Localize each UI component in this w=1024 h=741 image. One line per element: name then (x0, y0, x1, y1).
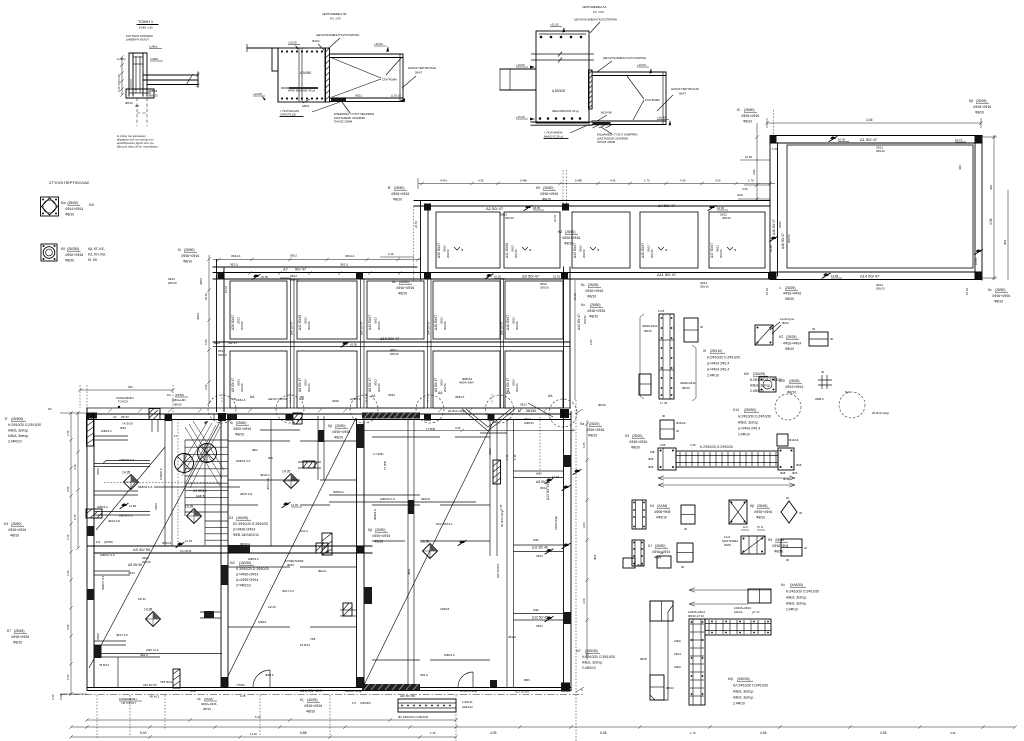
dim vertical left of rows (208, 255, 210, 404)
svg-text:206/10: 206/10 (876, 149, 885, 153)
svg-text:6.88: 6.88 (300, 731, 307, 735)
svg-text:Α/Β/Δ. 3ειπερ.: Α/Β/Δ. 3ειπερ. (582, 661, 603, 665)
svg-text:3Φ12: 3Φ12 (536, 624, 543, 628)
svg-text:Φ8/10: Φ8/10 (203, 707, 211, 711)
svg-text:ΔΟΚΟΣ ΠΕΡΤΙΚΟΛΑΣ: ΔΟΚΟΣ ΠΕΡΤΙΚΟΛΑΣ (671, 87, 699, 91)
detail long beam right block (778, 448, 794, 470)
svg-text:2Φ02: 2Φ02 (332, 399, 339, 403)
detail LB leader V (332, 58, 381, 78)
detail LA right slab (592, 71, 666, 73)
bottom edge wall junction blocks (221, 677, 228, 688)
svg-text:Δ5 50/ 47: Δ5 50/ 47 (231, 378, 235, 392)
lower right rebar strip detail (398, 699, 456, 712)
svg-text:ΦΦ8 Δ: ΦΦ8 Δ (265, 673, 274, 677)
svg-text:+16.45: +16.45 (657, 116, 666, 120)
svg-text:Φ8/Φ: Φ8/Φ (640, 657, 648, 661)
detail K1 dim line (639, 317, 641, 396)
svg-text:1.70: 1.70 (748, 179, 754, 183)
svg-text:46/76 Α.Σ.: 46/76 Α.Σ. (266, 477, 270, 490)
svg-text:206/10: 206/10 (540, 286, 549, 290)
svg-text:Δ2 50/ 47: Δ2 50/ 47 (486, 206, 504, 211)
svg-text:Η.2Φ10/20 Ο.2Φ10/20: Η.2Φ10/20 Ο.2Φ10/20 (8, 423, 41, 427)
detail LB beam section (278, 48, 325, 102)
svg-text:Κβ: Κβ (328, 424, 332, 428)
dimension line left of lower plan (70, 412, 72, 695)
mid room extra lines (228, 504, 258, 506)
svg-text:206/10: 206/10 (582, 249, 586, 258)
svg-text:2.60: 2.60 (582, 598, 586, 604)
svg-text:4Φ16+4Φ14: 4Φ16+4Φ14 (783, 342, 801, 346)
vertical dashed grid above row1 col2 (562, 170, 564, 204)
svg-text:2=4Φ2/10: 2=4Φ2/10 (236, 584, 251, 588)
svg-text:Κ9: Κ9 (768, 538, 772, 542)
svg-text:206/10: 206/10 (377, 383, 381, 392)
detail LA beam section big (536, 31, 589, 123)
dim line right of lower plan (586, 420, 588, 660)
svg-text:Φ8/10: Φ8/10 (306, 710, 315, 714)
svg-text:Κι: Κι (230, 421, 233, 425)
svg-text:Δ39 50/47: Δ39 50/47 (231, 315, 235, 330)
beam B row2 top (213, 272, 420, 274)
svg-text:4Φ08+2Φ14: 4Φ08+2Φ14 (680, 381, 696, 385)
svg-text:4Φ16+4Φ16: 4Φ16+4Φ16 (754, 510, 772, 514)
svg-text:77 Φ/Β: 77 Φ/Β (383, 461, 387, 470)
svg-text:20-Φ10 σιδηρ: 20-Φ10 σιδηρ (460, 689, 478, 693)
column row1 bottom-left (424, 273, 431, 280)
svg-text:4Φ1: 4Φ1 (989, 184, 993, 190)
svg-text:Δ46 50/ 47: Δ46 50/ 47 (500, 321, 504, 335)
svg-text:3x10: 3x10 (737, 193, 744, 197)
svg-text:1.05: 1.05 (240, 694, 246, 698)
svg-text:1.05: 1.05 (582, 442, 586, 448)
svg-text:1Φ.23: 1Φ.23 (138, 597, 146, 601)
svg-text:ΗΦ8/10: ΗΦ8/10 (524, 421, 534, 425)
svg-text:17.48: 17.48 (552, 475, 559, 479)
svg-text:1.45: 1.45 (499, 504, 503, 510)
svg-text:2.16: 2.16 (388, 252, 394, 256)
svg-text:Η.2Φ10/20 Ο.2Φ10/20: Η.2Φ10/20 Ο.2Φ10/20 (738, 415, 771, 419)
stair treads (185, 439, 228, 441)
small marks under row1 slabs (454, 247, 460, 250)
svg-text:ΚΛ.2Φ10/20 Ο.2Φ10/20: ΚΛ.2Φ10/20 Ο.2Φ10/20 (733, 684, 768, 688)
beam D1 50/47 top of big rect (770, 135, 982, 137)
svg-text:Δ=4Φ14 2Φ1.4: Δ=4Φ14 2Φ1.4 (707, 362, 729, 366)
svg-text:5.48: 5.48 (600, 731, 607, 735)
svg-text:206/10: 206/10 (650, 249, 654, 258)
svg-text:Φ08: Φ08 (648, 465, 654, 469)
svg-text:(25/25): (25/25) (588, 283, 598, 287)
svg-text:Δ45 50/47: Δ45 50/47 (434, 315, 438, 330)
beam top of row 1 (414, 200, 770, 202)
svg-text:ΤΟΜΗ 1: ΤΟΜΗ 1 (138, 19, 154, 24)
svg-text:Φ8/10 φΤ 10: Φ8/10 φΤ 10 (688, 614, 704, 618)
svg-text:Δ10 50/ 47: Δ10 50/ 47 (380, 336, 400, 341)
svg-text:ΝΑ2 Α: ΝΑ2 Α (300, 529, 308, 533)
svg-text:(25/20): (25/20) (632, 434, 642, 438)
svg-text:3.00: 3.00 (582, 522, 586, 528)
svg-text:ΔΟΚΟΣ ΠΕΡΤΙΚΟΛΑΣ: ΔΟΚΟΣ ΠΕΡΤΙΚΟΛΑΣ (408, 66, 436, 70)
svg-text:14.80: 14.80 (129, 504, 136, 508)
dimension line bottom secondary (87, 719, 456, 721)
svg-text:11.40: 11.40 (250, 732, 257, 736)
svg-text:Φ8/10: Φ8/10 (374, 540, 383, 544)
svg-text:ΗΦ2: ΗΦ2 (533, 538, 539, 542)
svg-text:Κ4: Κ4 (4, 522, 8, 526)
svg-text:Α/Β/Δ. 3ειπερ.: Α/Β/Δ. 3ειπερ. (8, 434, 29, 438)
svg-text:4.30: 4.30 (950, 731, 956, 735)
second bottom dimension line (71, 736, 456, 738)
svg-text:Φ8/10: Φ8/10 (125, 101, 133, 105)
column right edge bottom (561, 683, 570, 692)
hatched stub bottom x173 (173, 669, 180, 688)
svg-text:50/ 47: 50/ 47 (295, 267, 307, 272)
svg-text:Φ8Φ/4 Α: Φ8Φ/4 Α (373, 509, 377, 520)
detail Kb square X (729, 500, 747, 524)
detail L horizontal bar (705, 619, 771, 635)
svg-text:16.00: 16.00 (838, 138, 845, 142)
svg-text:ΛΕΠΤΟΜΕΡΕΙΑ ΛΑ: ΛΕΠΤΟΜΕΡΕΙΑ ΛΑ (582, 5, 606, 9)
vertical line x118 bottom left (117, 657, 119, 688)
bent bar symbol big rect left (770, 237, 778, 242)
svg-text:Φ08: Φ08 (648, 457, 654, 461)
svg-text:19 Φ/12: 19 Φ/12 (300, 643, 310, 647)
svg-text:25/ 50: 25/ 50 (121, 415, 129, 419)
svg-text:16.95: 16.95 (350, 343, 357, 347)
svg-text:ΦΑΤΑ: ΦΑΤΑ (724, 543, 731, 547)
svg-text:30: 30 (821, 370, 825, 374)
svg-text:206/10: 206/10 (240, 321, 244, 330)
left edge beam rows 2-3 (216, 260, 218, 412)
svg-text:4Φ16+4Φ16: 4Φ16+4Φ16 (391, 192, 409, 196)
svg-text:206/10: 206/10 (218, 353, 227, 357)
svg-text:4.46: 4.46 (866, 118, 873, 122)
wall stub b (200, 611, 221, 613)
detail TOMH 1 footing (126, 88, 154, 90)
interior wall vertical x221 (220, 419, 222, 688)
svg-text:Δ44 50/ 47: Δ44 50/ 47 (577, 314, 581, 330)
svg-text:2.15: 2.15 (73, 514, 77, 520)
svg-text:Φ8: Φ8 (135, 104, 139, 108)
dim vertical right of rows (574, 280, 576, 400)
svg-text:4.05: 4.05 (610, 179, 616, 183)
svg-text:206/10: 206/10 (505, 216, 514, 220)
detail small rect pair mid (660, 420, 674, 439)
svg-text:Δ=4Φ20+3Φ14: Δ=4Φ20+3Φ14 (233, 528, 255, 532)
right rooms extra lines (372, 504, 420, 506)
svg-text:ΣΤΥΛΟΙ ΠΕΡΤΙΚΟΛΑΣ: ΣΤΥΛΟΙ ΠΕΡΤΙΚΟΛΑΣ (49, 180, 90, 185)
slab diamond 3 (146, 612, 161, 627)
svg-text:ΚΖ, ΚΗ, ΚΘ,: ΚΖ, ΚΗ, ΚΘ, (88, 253, 106, 257)
svg-text:Δ8 40/ 50: Δ8 40/ 50 (128, 563, 142, 567)
svg-text:2.4Φ/10: 2.4Φ/10 (733, 702, 745, 706)
svg-text:Δ14 50/ 47: Δ14 50/ 47 (860, 274, 880, 279)
svg-text:Κ7: Κ7 (7, 629, 11, 633)
svg-text:+10.65: +10.65 (288, 41, 297, 45)
svg-text:(25/50): (25/50) (175, 393, 184, 397)
extra dashed verticals bottom (259, 695, 261, 735)
svg-text:30: 30 (676, 429, 680, 433)
slab row2 1 (230, 281, 287, 339)
svg-text:Δ=4Φ20+3Φ14: Δ=4Φ20+3Φ14 (236, 573, 258, 577)
svg-text:4Φ14+4Φ14: 4Φ14+4Φ14 (785, 385, 803, 389)
svg-text:1.16: 1.16 (430, 731, 436, 735)
svg-text:2.4Φ/10: 2.4Φ/10 (786, 608, 798, 612)
detail K20 cross (818, 375, 832, 389)
svg-text:(25/50): (25/50) (104, 540, 113, 544)
svg-text:Δ15 50/ 50: Δ15 50/ 50 (143, 683, 157, 687)
svg-text:Φ8/10: Φ8/10 (65, 213, 74, 217)
svg-text:ΚΖ: ΚΖ (48, 407, 52, 411)
svg-text:Κ20: Κ20 (779, 379, 785, 383)
svg-text:206/10: 206/10 (787, 234, 791, 243)
svg-text:ΗΦ8/4 Α: ΗΦ8/4 Α (248, 557, 259, 561)
svg-text:50/47: 50/47 (679, 92, 686, 96)
svg-text:1.35: 1.35 (513, 454, 517, 460)
slab row1 4 (640, 212, 698, 268)
svg-text:19.32: 19.32 (965, 288, 969, 295)
svg-text:ΗΦ/Ν6 Κ.Σ.: ΗΦ/Ν6 Κ.Σ. (119, 514, 134, 518)
svg-text:Δ39 50/47: Δ39 50/47 (437, 243, 441, 258)
svg-text:Κι7: Κι7 (576, 649, 581, 653)
beam verticals between row slabs (290, 279, 292, 408)
svg-text:3Φ12: 3Φ12 (128, 571, 135, 575)
svg-text:ΗΦ8/4: ΗΦ8/4 (258, 620, 267, 624)
svg-text:Φ05/Μ Α: Φ05/Μ Α (333, 490, 344, 494)
svg-text:4Φ2/10: 4Φ2/10 (656, 516, 667, 520)
bent bar symbol big rect top (829, 137, 837, 142)
svg-text:Φ8/20 Α: Φ8/20 Α (240, 542, 250, 546)
slab row1 2 (504, 212, 560, 268)
svg-text:22.52: 22.52 (414, 221, 418, 228)
svg-text:19.32: 19.32 (224, 286, 228, 293)
svg-text:+10.68: +10.68 (253, 92, 262, 96)
svg-text:Κιβ: Κιβ (728, 677, 733, 681)
svg-text:Φ8/10: Φ8/10 (785, 347, 794, 351)
svg-text:Κιδ: Κιδ (744, 372, 749, 376)
svg-text:Φ04: Φ04 (593, 554, 597, 560)
dim left of big rect vertical (756, 123, 758, 200)
svg-text:3Φ4 Δ: 3Φ4 Δ (420, 673, 428, 677)
svg-text:4.47α: 4.47α (440, 179, 447, 183)
svg-text:4.05: 4.05 (880, 731, 887, 735)
svg-text:6Φ8/17 Κ.Σ.: 6Φ8/17 Κ.Σ. (101, 575, 105, 590)
svg-text:302: 302 (128, 385, 133, 389)
svg-text:3Φ64: 3Φ64 (388, 393, 395, 397)
stair enclosure (164, 419, 166, 546)
svg-text:ΞΗΡΟΤΕ ΔΕ: ΞΗΡΟΤΕ ΔΕ (280, 113, 296, 117)
svg-text:4Φ16+4Φ16: 4Φ16+4Φ16 (396, 286, 414, 290)
detail long beam left block (658, 448, 676, 470)
svg-text:ΗΦΙΔ+ΗΦΙ: ΗΦΙΔ+ΗΦΙ (172, 398, 186, 402)
svg-text:3Φ4Φ2 σιδηρ: 3Φ4Φ2 σιδηρ (345, 689, 362, 693)
detail L arrow end rect (748, 589, 771, 603)
svg-text:14.35: 14.35 (144, 608, 152, 612)
svg-text:4Φ16+4Φ16: 4Φ16+4Φ16 (181, 254, 199, 258)
svg-text:(40/25): (40/25) (307, 698, 317, 702)
svg-text:(25/50): (25/50) (11, 522, 21, 526)
svg-text:20-Φ10 σιδηρ: 20-Φ10 σιδηρ (448, 409, 466, 413)
bottom edge hatched bar (362, 684, 420, 690)
svg-text:ΧΙ: ΧΙ (703, 349, 706, 353)
slab outline big rect (787, 145, 973, 268)
svg-text:16.00: 16.00 (745, 155, 752, 159)
mid horizontal interior line upper (228, 440, 290, 442)
interior partial lines mid room (228, 479, 300, 481)
beam right edge of rows upper (563, 267, 565, 408)
dashed circle with column top right (549, 399, 577, 427)
extra top band tick marks (108, 409, 112, 413)
beam left edge of big rect (769, 143, 771, 276)
column K bottom-right of big rect (975, 273, 982, 280)
svg-text:ΛΕΠΤΟΜΕΡΕΙΑ ΛΒ: ΛΕΠΤΟΜΕΡΕΙΑ ΛΒ (322, 12, 346, 16)
long diagonal left room (89, 418, 222, 668)
svg-text:ΜΟΛΥΒΙ: ΜΟΛΥΒΙ (601, 111, 612, 115)
detail LA leader V right (627, 76, 644, 99)
svg-text:Δ=4Φ20+3Φ14: Δ=4Φ20+3Φ14 (236, 578, 258, 582)
legend column symbol K10 (41, 197, 59, 216)
svg-text:206/10: 206/10 (307, 321, 311, 330)
detail long beam bar (676, 451, 778, 467)
svg-text:4.30: 4.30 (73, 464, 77, 470)
svg-text:Η.2Φ10/20 Ο.2Φ10/20: Η.2Φ10/20 Ο.2Φ10/20 (786, 590, 819, 594)
interior beam horizontal D9 (87, 545, 372, 547)
bent bars right zone (545, 479, 553, 484)
column K bottom-left of big rect (770, 273, 777, 280)
long diagonal mid room (222, 418, 356, 688)
beam bottom of row 1 (413, 272, 770, 274)
svg-text:(25/250): (25/250) (67, 247, 79, 251)
dim line inside plan y430 (357, 430, 575, 432)
svg-text:(25/50): (25/50) (995, 288, 1005, 292)
slab row2 2 (297, 281, 357, 339)
svg-text:Φ8/10: Φ8/10 (756, 516, 765, 520)
svg-text:Κι7: Κι7 (352, 701, 356, 705)
svg-text:4Φ16+4Φ16: 4Φ16+4Φ16 (201, 702, 217, 706)
svg-text:Φ10/1Δ: Φ10/1Δ (676, 421, 686, 425)
svg-text:Κι3: Κι3 (96, 540, 100, 544)
svg-text:24000 ΔΦμ: 24000 ΔΦμ (554, 516, 558, 530)
svg-text:30: 30 (681, 565, 685, 569)
detail LB neoprene pad (331, 99, 346, 102)
svg-text:+16.00: +16.00 (637, 63, 646, 67)
detail LA left stub (500, 68, 536, 70)
column row2 mid (356, 273, 363, 280)
svg-text:3.05: 3.05 (455, 426, 461, 430)
right edge hatch mid (564, 455, 571, 467)
svg-text:5.480: 5.480 (520, 179, 527, 183)
svg-text:ΝΕ2 Α: ΝΕ2 Α (140, 653, 148, 657)
slab row1 1 (436, 212, 500, 268)
detail LB polystyrene strip hatched (326, 48, 330, 102)
detail diamond rotated square (781, 501, 797, 523)
bent bar symbol row1 top b (708, 206, 716, 211)
slab row2 5 (505, 281, 563, 339)
thin wall x271 (270, 420, 272, 546)
svg-text:ΜΗΚΟΥΣ 50 χλ: ΜΗΚΟΥΣ 50 χλ (544, 134, 564, 138)
svg-text:(25/300): (25/300) (11, 417, 23, 421)
detail long beam small rect above (777, 434, 788, 446)
bent bar symbol row1 top a (524, 206, 532, 211)
svg-text:19.65: 19.65 (769, 245, 773, 252)
svg-text:Δ15: Δ15 (214, 341, 220, 345)
dimension line top of big rect (767, 122, 981, 124)
detail column elevation bottom rect (650, 675, 664, 700)
svg-text:206/10: 206/10 (583, 315, 587, 324)
svg-text:0.90: 0.90 (59, 694, 63, 700)
hatched block on band x150 (149, 409, 160, 420)
svg-text:5.40: 5.40 (140, 731, 147, 735)
svg-text:4Φ2/10: 4Φ2/10 (421, 497, 431, 501)
detail LA neoprene pad (593, 122, 611, 125)
svg-text:ΦΑΤΑ: ΦΑΤΑ (782, 321, 789, 325)
svg-text:Α/Β/Δ. 3ειπερ.: Α/Β/Δ. 3ειπερ. (786, 596, 807, 600)
svg-text:14.85: 14.85 (974, 258, 978, 265)
legend column symbol K6 (41, 244, 57, 261)
column K top-right of big rect (975, 136, 982, 143)
dimension line top of row 1 (418, 183, 775, 185)
svg-text:Α/Β/Δ. 3ειπερ.: Α/Β/Δ. 3ειπερ. (733, 690, 754, 694)
slab row3 4 (433, 351, 500, 408)
dashed circles on top edge (208, 395, 236, 423)
detail TOMH 1 dimension line vertical (121, 57, 123, 95)
hatch wall x357 lower (322, 533, 332, 555)
svg-text:Α/Β/Δ. 3ειπερ.: Α/Β/Δ. 3ειπερ. (738, 421, 759, 425)
svg-text:1.50: 1.50 (772, 147, 778, 151)
svg-text:ΒΜ6: ΒΜ6 (524, 678, 530, 682)
svg-text:(25/45): (25/45) (14, 629, 24, 633)
svg-text:30: 30 (812, 327, 816, 331)
svg-text:30: 30 (830, 337, 834, 341)
svg-text:Δ43 50/47: Δ43 50/47 (573, 243, 577, 258)
svg-text:Κι: Κι (178, 248, 181, 252)
beam right edge of big rect (974, 143, 976, 272)
bent bar lower plan a (120, 504, 128, 509)
svg-text:Δ44 50/ 47: Δ44 50/ 47 (427, 321, 431, 335)
svg-text:206/10: 206/10 (240, 383, 244, 392)
column row1 top-mid (562, 204, 569, 211)
stair flight fan lines (178, 421, 220, 488)
bent bar symbol row1 bottom (485, 274, 493, 279)
svg-text:206/10: 206/10 (722, 216, 731, 220)
svg-text:ΔΙΑΦΕΨΗ ΥΕΛΟΥ: ΔΙΑΦΕΨΗ ΥΕΛΟΥ (126, 38, 149, 42)
svg-text:2.40: 2.40 (66, 570, 70, 576)
svg-text:ΗΦ2: ΗΦ2 (533, 608, 539, 612)
interior wall vertical x490 (489, 419, 491, 556)
svg-text:1.05: 1.05 (66, 430, 70, 436)
svg-text:(25/50): (25/50) (744, 108, 754, 112)
bent bar lower plan c (573, 470, 581, 475)
svg-text:Δ7: Δ7 (283, 267, 289, 272)
svg-text:4.46: 4.46 (760, 731, 767, 735)
wall stub d hatched small mid (316, 543, 328, 553)
svg-text:50/ 47: 50/ 47 (228, 341, 237, 345)
svg-text:1xΦ6α: 1xΦ6α (149, 45, 158, 49)
svg-text:Δ5 50/ 47: Δ5 50/ 47 (434, 378, 438, 392)
svg-text:ΗΦ8/4 Α: ΗΦ8/4 Α (444, 653, 455, 657)
svg-text:3.95: 3.95 (66, 624, 70, 630)
slab diamond 2 (187, 509, 202, 524)
svg-text:4.30: 4.30 (715, 179, 721, 183)
svg-text:30: 30 (684, 527, 688, 531)
svg-text:Α/Β/Δ. 3ειπερ.: Α/Β/Δ. 3ειπερ. (8, 429, 29, 433)
left edge hatch segments (87, 414, 94, 446)
svg-text:49/17 Α.Σ.: 49/17 Α.Σ. (282, 589, 295, 593)
svg-text:4Φ1: 4Φ1 (958, 164, 962, 170)
svg-text:Δ.16.13: Δ.16.13 (391, 94, 401, 98)
svg-text:20-Φ10 σιδηρ: 20-Φ10 σιδηρ (500, 509, 504, 527)
dashed vertical x97 bottom (96, 695, 98, 738)
svg-text:Δ9 50/ 47: Δ9 50/ 47 (522, 274, 540, 279)
